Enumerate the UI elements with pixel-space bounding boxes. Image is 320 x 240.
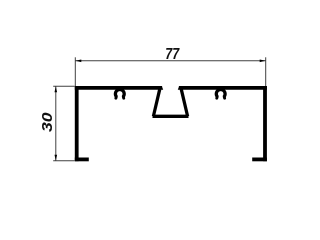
top flange right segment bbox=[178, 86, 267, 90]
svg-text:30: 30 bbox=[39, 112, 56, 132]
right foot bbox=[252, 158, 267, 162]
dimension 30: dimension line bbox=[55, 86, 57, 161]
right wall bbox=[263, 86, 267, 161]
dimension 77: extension line right bbox=[265, 57, 267, 86]
dimension 30: top arrow bbox=[55, 86, 58, 92]
dimension 30: extension line top bbox=[53, 85, 74, 87]
dimension 77: right arrow bbox=[260, 60, 266, 63]
left foot bbox=[75, 158, 89, 162]
screw port left bbox=[115, 90, 124, 99]
svg-text:77: 77 bbox=[165, 45, 180, 63]
left wall bbox=[75, 86, 79, 161]
dimension 77: dimension line bbox=[75, 60, 265, 62]
dimension 77: extension line left bbox=[74, 57, 76, 86]
dimension 30: bottom arrow bbox=[55, 155, 58, 161]
dovetail groove right wall bbox=[179, 86, 189, 116]
top flange left segment bbox=[75, 86, 163, 90]
dovetail groove bottom web bbox=[153, 115, 189, 118]
dimension 30: extension line bottom bbox=[53, 160, 74, 162]
dimension 77: left arrow bbox=[75, 60, 81, 63]
dovetail groove left wall bbox=[152, 86, 162, 116]
screw port right bbox=[216, 90, 225, 99]
